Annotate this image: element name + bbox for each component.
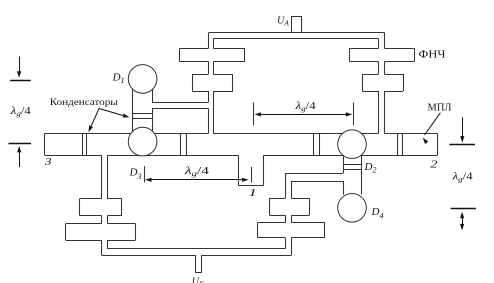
port U_A stub	[291, 16, 293, 33]
dimension right margin: double vertical arrow	[462, 215, 464, 228]
capacitor gap 1 on main line	[82, 133, 84, 155]
port U_- stub at bottom	[195, 255, 197, 273]
low-pass filter U4 wide section 2	[66, 223, 102, 225]
port 1 stub below main line	[238, 155, 240, 185]
svg-text:Конденсаторы: Конденсаторы	[50, 97, 118, 107]
diode D3 circle on main line	[128, 127, 157, 156]
wire МПЛ pointer arrow	[425, 113, 441, 135]
dimension lambda/4 upper middle: left tick	[253, 103, 255, 126]
dimension right margin: bottom bar	[451, 208, 476, 210]
svg-text:λg/4: λg/4	[10, 106, 32, 118]
wire link strip D2 branch to filter U3	[285, 173, 343, 175]
wire bottom bias strip	[107, 248, 285, 250]
diode D1 circle	[128, 65, 157, 94]
dimension left margin: up arrow	[19, 149, 21, 167]
low-pass filter U4 narrow section 1	[80, 198, 102, 200]
wire diode D2 branch strip down	[343, 155, 345, 174]
svg-text:3: 3	[44, 155, 52, 167]
dimension right margin: down arrow	[462, 117, 464, 139]
low-pass filter U1 wide section 1	[180, 48, 209, 50]
dimension lambda/4 upper middle: right tick	[353, 103, 355, 126]
capacitor gap 4 on main line	[397, 133, 399, 155]
dimension left margin: down arrow	[19, 57, 21, 75]
svg-text:ФНЧ: ФНЧ	[419, 49, 447, 60]
wire main microstrip line (МПЛ) outline	[44, 133, 46, 155]
dimension left margin: bottom bar	[9, 143, 32, 145]
capacitor gap 2 on main line	[180, 133, 182, 155]
low-pass filter U1 wide section 2	[192, 74, 208, 76]
svg-text:λg/4: λg/4	[294, 101, 316, 113]
dimension left margin: top bar	[10, 80, 31, 82]
low-pass filter U2 right vertical strip	[378, 39, 380, 49]
wire capacitor pointer arrows fork	[90, 109, 100, 130]
svg-text:МПЛ: МПЛ	[428, 103, 452, 114]
svg-text:λg/4: λg/4	[451, 172, 473, 184]
dimension lambda/4 lower middle: right tick in port1 stub	[251, 167, 253, 183]
low-pass filter U3 middle vertical strip	[285, 173, 287, 198]
svg-text:2: 2	[430, 158, 437, 170]
low-pass filter U2 wide section 1	[350, 48, 379, 50]
wire diode D1 branch strip	[132, 89, 134, 134]
low-pass filter U1 left vertical strip	[208, 33, 210, 49]
dimension right margin: top bar	[449, 144, 475, 146]
capacitor gap 3 on main line	[313, 133, 315, 155]
dimension lambda/4 lower middle: double arrow	[149, 179, 245, 181]
capacitor C1 plates under D1	[132, 113, 152, 115]
wire link strip D1 to filter U1	[152, 102, 208, 104]
wire top bias bar	[209, 32, 385, 34]
svg-text:1: 1	[249, 188, 257, 200]
low-pass filter U3 narrow section 1	[270, 198, 286, 200]
low-pass filter U3 wide section 2	[257, 222, 285, 224]
low-pass filter U4 left-lower vertical strip	[101, 155, 103, 199]
dimension lambda/4 upper middle: double arrow	[259, 114, 349, 116]
diode D2 circle on main line	[338, 130, 367, 159]
capacitor C2 plates under D2	[343, 164, 362, 166]
low-pass filter U2 wide section 2	[362, 74, 378, 76]
dimension lambda/4 lower middle: left tick at D3	[144, 166, 146, 182]
diode D4 circle	[338, 194, 367, 223]
svg-text:λg/4: λg/4	[183, 166, 210, 178]
